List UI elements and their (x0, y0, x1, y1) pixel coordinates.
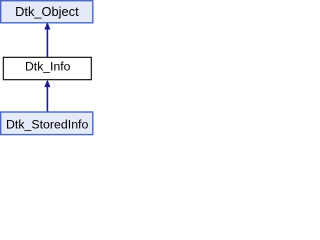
background (0, 0, 95, 136)
wire: edge line (46, 29, 48, 57)
class box Dtk_StoredInfo (derived class node) (1, 112, 93, 135)
wire: edge line (46, 86, 48, 111)
class box Dtk_Object (base class node) (1, 1, 93, 23)
svg-text:Dtk_Object: Dtk_Object (15, 4, 79, 19)
arrowhead (pointing up at Dtk_Object) (45, 23, 50, 29)
inheritance arrow Dtk_Info -> Dtk_Object (45, 23, 50, 57)
arrowhead (pointing up at Dtk_Info) (45, 80, 50, 86)
inheritance arrow Dtk_StoredInfo -> Dtk_Info (45, 80, 50, 111)
class box Dtk_Info (current class node) (3, 57, 91, 79)
svg-text:Dtk_StoredInfo: Dtk_StoredInfo (6, 117, 88, 131)
svg-text:Dtk_Info: Dtk_Info (25, 60, 71, 74)
